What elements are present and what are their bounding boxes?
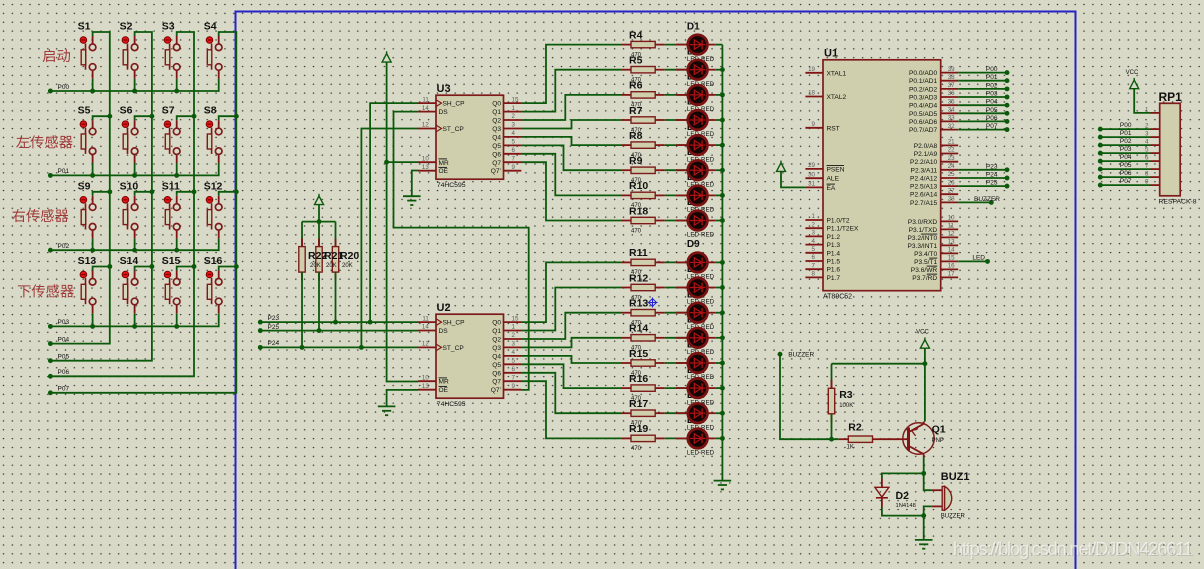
pin 39 P0.0/AD0 bbox=[909, 66, 958, 77]
LED D5 LED-RED bbox=[665, 135, 716, 163]
ground U3 OE bbox=[403, 195, 421, 197]
svg-text:LED: LED bbox=[972, 255, 985, 262]
svg-text:S3: S3 bbox=[162, 21, 175, 33]
svg-text:VCC: VCC bbox=[1126, 70, 1139, 76]
svg-text:BUZZER: BUZZER bbox=[941, 513, 966, 519]
pin 28 P2.7/A15 bbox=[910, 196, 958, 207]
wire VCC branch to R3 bbox=[832, 363, 925, 365]
wire cascade U2 Q7' to U3 DS bbox=[394, 112, 529, 390]
wire R5 net bbox=[521, 70, 621, 112]
svg-text:S10: S10 bbox=[120, 180, 139, 192]
pin 15 P3.5/T1 bbox=[914, 255, 958, 266]
resistor R9 470 bbox=[622, 155, 665, 184]
svg-text:5: 5 bbox=[1145, 147, 1149, 154]
svg-text:P04: P04 bbox=[986, 99, 998, 106]
svg-text:12: 12 bbox=[422, 341, 429, 348]
svg-text:Q7: Q7 bbox=[492, 160, 501, 167]
switch S5 bbox=[78, 105, 110, 176]
svg-text:20K: 20K bbox=[326, 263, 337, 269]
switch S2 bbox=[120, 21, 138, 92]
svg-text:P0.0/AD0: P0.0/AD0 bbox=[909, 70, 938, 77]
wire R18 net bbox=[521, 162, 621, 220]
svg-text:P1.0/T2: P1.0/T2 bbox=[827, 218, 850, 225]
svg-text:28: 28 bbox=[948, 196, 955, 203]
wire LED cathode to bus bbox=[715, 362, 722, 364]
svg-text:16: 16 bbox=[948, 263, 955, 270]
svg-text:P0.2/AD2: P0.2/AD2 bbox=[909, 86, 938, 93]
LED D16 LED-RED bbox=[665, 429, 716, 457]
node R21 bottom junction bbox=[317, 328, 322, 333]
LED D12 LED-RED bbox=[665, 328, 716, 356]
svg-text:RP1: RP1 bbox=[1159, 90, 1183, 104]
resistor R18 470 bbox=[622, 205, 665, 234]
pin 38 P0.1/AD1 bbox=[909, 74, 958, 85]
node junction row bus bbox=[132, 173, 137, 178]
wire net P07 (U1) bbox=[958, 129, 1007, 131]
svg-text:1: 1 bbox=[512, 105, 516, 112]
svg-text:6: 6 bbox=[1145, 155, 1149, 162]
switch S6 bbox=[120, 105, 152, 176]
svg-text:32: 32 bbox=[948, 123, 955, 130]
node LED terminal bbox=[985, 259, 990, 264]
svg-text:100K: 100K bbox=[839, 403, 853, 409]
svg-text:R14: R14 bbox=[629, 323, 648, 335]
svg-text:P23: P23 bbox=[268, 315, 280, 322]
node P04 terminal bbox=[1005, 103, 1010, 108]
svg-text:36: 36 bbox=[948, 90, 955, 97]
resistor pack RP1 RESPACK-8 bbox=[1159, 90, 1197, 206]
power VCC rail (MR pullup) bbox=[382, 54, 391, 63]
node cathode bus junction bbox=[720, 310, 725, 315]
wire pullup tops to VCC bbox=[302, 221, 336, 223]
resistor R14 470 bbox=[622, 323, 665, 352]
svg-text:P1.1/T2EX: P1.1/T2EX bbox=[827, 226, 859, 233]
pin 17 P3.7/RD bbox=[912, 271, 958, 282]
diode D2 1N4148 bbox=[875, 479, 916, 510]
svg-text:P24: P24 bbox=[986, 172, 998, 179]
svg-text:P01: P01 bbox=[1120, 130, 1132, 137]
svg-text:MR: MR bbox=[439, 379, 449, 386]
svg-text:7: 7 bbox=[812, 262, 816, 269]
svg-text:P2.2/A10: P2.2/A10 bbox=[910, 159, 937, 166]
switch S7 bbox=[162, 105, 194, 176]
svg-text:11: 11 bbox=[422, 96, 429, 103]
node P05 terminal bbox=[1005, 111, 1010, 116]
svg-text:AT89C52: AT89C52 bbox=[823, 294, 852, 301]
svg-text:OE: OE bbox=[439, 168, 449, 175]
switch S13 bbox=[78, 255, 110, 326]
svg-text:2: 2 bbox=[512, 332, 516, 339]
svg-text:RESPACK-8: RESPACK-8 bbox=[1159, 199, 1197, 206]
svg-text:XTAL2: XTAL2 bbox=[827, 94, 847, 101]
svg-text:Q1: Q1 bbox=[492, 328, 501, 335]
svg-text:P2.6/A14: P2.6/A14 bbox=[910, 192, 937, 199]
svg-text:20K: 20K bbox=[342, 263, 353, 269]
svg-text:U1: U1 bbox=[824, 47, 838, 59]
ground U2 OE bbox=[378, 405, 396, 407]
pin 22 P2.1/A9 bbox=[914, 147, 958, 158]
pin 7 P1.6 bbox=[805, 262, 840, 273]
svg-text:P1.7: P1.7 bbox=[827, 275, 841, 282]
svg-text:7: 7 bbox=[1145, 163, 1149, 170]
svg-text:P23: P23 bbox=[986, 163, 998, 170]
node P01 terminal (RP1) bbox=[1098, 135, 1103, 140]
wire LED cathode to bus bbox=[715, 287, 722, 289]
node P23 terminal bbox=[1005, 167, 1010, 172]
svg-text:7: 7 bbox=[512, 374, 516, 381]
svg-text:P0.1/AD1: P0.1/AD1 bbox=[909, 78, 938, 85]
svg-text:S2: S2 bbox=[120, 21, 133, 33]
label 左传感器 (left sensor) bbox=[16, 135, 72, 148]
wire R10 net bbox=[521, 154, 621, 196]
svg-text:Q2: Q2 bbox=[492, 337, 501, 344]
svg-text:P05: P05 bbox=[1120, 162, 1132, 169]
LED D2 LED-RED bbox=[665, 60, 716, 88]
node junction column bbox=[149, 189, 154, 194]
LED D1 LED-RED bbox=[665, 35, 716, 63]
svg-text:S15: S15 bbox=[162, 255, 181, 267]
node cathode bus junction bbox=[720, 436, 725, 441]
svg-text:P25: P25 bbox=[268, 324, 280, 331]
LED D7 LED-RED bbox=[665, 186, 716, 214]
node cathode bus junction bbox=[720, 168, 725, 173]
wire net P24 (to U2 ST_CP) bbox=[260, 346, 418, 348]
svg-text:R3: R3 bbox=[839, 389, 853, 401]
svg-text:P02: P02 bbox=[58, 243, 70, 250]
node junction row bus bbox=[90, 89, 95, 94]
node P06 terminal bbox=[1005, 119, 1010, 124]
node junction column bbox=[107, 264, 112, 269]
svg-text:26: 26 bbox=[948, 179, 955, 186]
switch S15 bbox=[162, 255, 194, 326]
wire collector to D2 anode bbox=[882, 473, 924, 478]
node P00 terminal bbox=[48, 89, 53, 94]
svg-text:P07: P07 bbox=[986, 123, 998, 130]
svg-text:XTAL1: XTAL1 bbox=[827, 70, 847, 77]
svg-text:14: 14 bbox=[422, 105, 429, 112]
pin 35 P0.4/AD4 bbox=[909, 98, 958, 109]
switch S4 bbox=[204, 21, 222, 79]
node VCC pullup junction bbox=[317, 219, 322, 224]
node VCC junction bbox=[922, 361, 927, 366]
svg-text:P1.2: P1.2 bbox=[827, 234, 841, 241]
ground LED bus bbox=[714, 480, 732, 482]
resistor R19 470 bbox=[622, 423, 665, 452]
node P03 terminal bbox=[1005, 95, 1010, 100]
wire row bus net P02 bbox=[50, 239, 218, 251]
switch S16 bbox=[204, 255, 237, 313]
svg-text:ST_CP: ST_CP bbox=[443, 345, 465, 352]
node collector junction bbox=[921, 471, 926, 476]
node R3/R2 junction bbox=[829, 437, 834, 442]
node junction row bus bbox=[132, 324, 137, 329]
wire N2 to BUZ1 bottom bbox=[924, 506, 932, 515]
node P03 terminal bbox=[48, 324, 53, 329]
svg-text:SH_CP: SH_CP bbox=[443, 320, 466, 327]
svg-text:LED-RED: LED-RED bbox=[687, 232, 715, 239]
wire D2 cathode to node N2 bbox=[882, 507, 924, 516]
svg-text:Q4: Q4 bbox=[492, 134, 501, 141]
svg-text:Q1: Q1 bbox=[492, 109, 501, 116]
node cathode bus junction bbox=[720, 143, 725, 148]
svg-text:7: 7 bbox=[512, 155, 516, 162]
svg-text:34: 34 bbox=[948, 107, 955, 114]
svg-text:10: 10 bbox=[422, 374, 429, 381]
wire R8 net bbox=[521, 137, 621, 145]
resistor R12 470 bbox=[622, 272, 665, 301]
wire U3 ST_CP branch to P24 bbox=[361, 129, 418, 348]
switch S10 bbox=[120, 180, 152, 250]
node junction column bbox=[149, 264, 154, 269]
svg-text:31: 31 bbox=[808, 181, 815, 188]
svg-text:PSEN: PSEN bbox=[827, 166, 845, 173]
svg-text:P3.7/RD: P3.7/RD bbox=[912, 275, 937, 282]
svg-text:P07: P07 bbox=[1120, 178, 1132, 185]
node junction row bus bbox=[90, 248, 95, 253]
LED D10 LED-RED bbox=[665, 278, 716, 306]
svg-text:39: 39 bbox=[948, 66, 955, 73]
wire net P25 (U1) bbox=[958, 185, 1007, 187]
wire net P02 (U1) bbox=[958, 88, 1007, 90]
switch S8 bbox=[204, 105, 237, 163]
svg-text:R20: R20 bbox=[340, 250, 359, 262]
svg-text:S4: S4 bbox=[204, 21, 217, 33]
svg-text:VCC: VCC bbox=[916, 330, 929, 336]
pin 3 RP1 / net P01 bbox=[1100, 130, 1159, 138]
svg-text:Q3: Q3 bbox=[492, 126, 501, 133]
svg-text:P07: P07 bbox=[58, 386, 70, 393]
wire net P24 (U1) bbox=[958, 177, 1007, 179]
pin 8 P1.7 bbox=[805, 271, 840, 282]
pin 6 RP1 / net P04 bbox=[1100, 154, 1159, 162]
pin 34 P0.5/AD5 bbox=[909, 107, 958, 118]
svg-text:https://blog.csdn.net/DJDN4266: https://blog.csdn.net/DJDN426611 bbox=[953, 538, 1193, 559]
wire R2 to Q1 base bbox=[882, 438, 899, 440]
pin 27 P2.6/A14 bbox=[910, 187, 958, 198]
svg-text:4: 4 bbox=[512, 349, 516, 356]
svg-text:Q6: Q6 bbox=[492, 151, 501, 158]
svg-text:1: 1 bbox=[512, 324, 516, 331]
pin 7 RP1 / net P05 bbox=[1100, 162, 1159, 170]
wire R13 net bbox=[521, 313, 621, 339]
svg-text:14: 14 bbox=[422, 324, 429, 331]
svg-text:LED-RED: LED-RED bbox=[687, 450, 715, 457]
node P04 terminal (RP1) bbox=[1098, 159, 1103, 164]
node junction row bus bbox=[174, 173, 179, 178]
svg-text:P3.4/T0: P3.4/T0 bbox=[914, 251, 937, 258]
switch S1 bbox=[78, 21, 96, 92]
node P02 terminal bbox=[48, 248, 53, 253]
svg-text:4: 4 bbox=[1145, 139, 1149, 146]
node junction row bus bbox=[174, 89, 179, 94]
svg-text:25: 25 bbox=[948, 171, 955, 178]
svg-text:1N4148: 1N4148 bbox=[896, 503, 916, 509]
svg-text:Q7’: Q7’ bbox=[491, 387, 502, 394]
svg-text:RST: RST bbox=[827, 125, 840, 132]
wire U2 OE to ground bbox=[387, 390, 419, 407]
LED D11 LED-RED bbox=[665, 303, 716, 331]
pin 32 P0.7/AD7 bbox=[909, 123, 958, 134]
pin 16 P3.6/WR bbox=[911, 263, 958, 274]
pin 24 P2.3/A11 bbox=[911, 163, 959, 174]
node junction column bbox=[107, 189, 112, 194]
wire R16 net bbox=[521, 364, 621, 388]
wire net P05 (U1) bbox=[958, 112, 1007, 114]
pin 36 P0.3/AD3 bbox=[909, 90, 958, 101]
wire R7 net bbox=[521, 120, 621, 129]
node P04 terminal bbox=[48, 341, 53, 346]
node P23 terminal bbox=[258, 320, 263, 325]
svg-text:S8: S8 bbox=[204, 105, 217, 117]
svg-text:R7: R7 bbox=[629, 105, 643, 117]
resistor R4 470 bbox=[622, 29, 665, 58]
switch S9 bbox=[78, 180, 110, 250]
node cathode bus junction bbox=[720, 67, 725, 72]
LED D6 LED-RED bbox=[665, 160, 716, 188]
svg-text:9: 9 bbox=[1145, 179, 1149, 186]
wire LED cathode to bus bbox=[715, 169, 722, 171]
svg-text:S7: S7 bbox=[162, 105, 175, 117]
svg-text:R6: R6 bbox=[629, 80, 643, 92]
pin 31 EA bbox=[805, 181, 835, 192]
svg-text:D1: D1 bbox=[687, 21, 700, 32]
pin 9 RST bbox=[805, 121, 839, 132]
wire net P04 (U1) bbox=[958, 104, 1007, 106]
svg-text:19: 19 bbox=[808, 66, 815, 73]
pin 4 RP1 / net P02 bbox=[1100, 138, 1159, 146]
pin 10 P3.0/RXD bbox=[908, 215, 958, 226]
wire keypad column 1 / net P04 bbox=[50, 32, 109, 344]
svg-text:2: 2 bbox=[512, 113, 516, 120]
wire net P01 (U1) bbox=[958, 80, 1007, 82]
svg-text:3: 3 bbox=[512, 122, 516, 129]
svg-text:P2.4/A12: P2.4/A12 bbox=[910, 176, 937, 183]
node P25 terminal bbox=[1005, 184, 1010, 189]
wire LED cathode to bus bbox=[715, 44, 722, 46]
wire R9 net bbox=[521, 145, 621, 170]
wire RP1 pin1 to VCC bbox=[1134, 89, 1150, 113]
wire LED cathode to bus bbox=[715, 337, 722, 339]
svg-text:P3.2/INT0: P3.2/INT0 bbox=[908, 235, 938, 242]
svg-text:37: 37 bbox=[948, 82, 955, 89]
svg-text:20K: 20K bbox=[310, 263, 321, 269]
wire net P23 (to U2 SH_CP) bbox=[260, 321, 418, 323]
svg-text:R18: R18 bbox=[629, 205, 648, 217]
node junction row bus bbox=[90, 173, 95, 178]
pin 2 RP1 / net P00 bbox=[1100, 122, 1159, 130]
wire LED cathode to bus bbox=[715, 119, 722, 121]
node cathode bus junction bbox=[720, 386, 725, 391]
resistor R8 470 bbox=[622, 130, 665, 159]
wire LED cathode to bus bbox=[715, 437, 722, 439]
svg-text:R13: R13 bbox=[629, 298, 648, 310]
node cathode bus junction bbox=[720, 92, 725, 97]
power VCC arrow (EA) bbox=[777, 163, 786, 172]
wire keypad column 3 / net P06 bbox=[50, 32, 194, 376]
wire U3 MR to VCC rail bbox=[387, 161, 419, 163]
pin 9 RP1 / net P07 bbox=[1100, 178, 1159, 186]
svg-text:21: 21 bbox=[948, 139, 955, 146]
svg-text:Q7: Q7 bbox=[492, 379, 501, 386]
LED D15 LED-RED bbox=[665, 403, 716, 431]
node cathode bus junction bbox=[720, 118, 725, 123]
pin 11 P3.1/TXD bbox=[909, 223, 959, 234]
svg-text:11: 11 bbox=[948, 223, 955, 230]
node cathode bus junction bbox=[720, 335, 725, 340]
svg-text:DS: DS bbox=[439, 109, 449, 116]
svg-text:9: 9 bbox=[512, 383, 516, 390]
node P02 terminal bbox=[1005, 86, 1010, 91]
sheet border bbox=[236, 12, 1076, 569]
resistor R2 1K bbox=[839, 422, 882, 451]
svg-text:74HC595: 74HC595 bbox=[437, 401, 466, 408]
svg-text:35: 35 bbox=[948, 98, 955, 105]
pin 19 XTAL1 bbox=[805, 66, 846, 77]
svg-text:Q0: Q0 bbox=[492, 101, 501, 108]
node P00 terminal bbox=[1005, 70, 1010, 75]
svg-text:Q5: Q5 bbox=[492, 143, 501, 150]
svg-text:8: 8 bbox=[1145, 171, 1149, 178]
node P01 terminal bbox=[1005, 78, 1010, 83]
svg-text:15: 15 bbox=[512, 315, 519, 322]
svg-text:470: 470 bbox=[631, 228, 642, 234]
node cathode bus junction bbox=[720, 193, 725, 198]
node junction row bus bbox=[90, 324, 95, 329]
pin 30 ALE bbox=[805, 171, 839, 182]
node cathode bus junction bbox=[720, 260, 725, 265]
resistor R10 470 bbox=[622, 180, 665, 209]
wire U3 SH_CP branch to P23 bbox=[370, 103, 418, 322]
svg-text:S1: S1 bbox=[78, 21, 91, 33]
label 右传感器 (right sensor) bbox=[12, 209, 68, 222]
node cathode bus junction bbox=[720, 218, 725, 223]
wire keypad column 4 / net P07 bbox=[50, 32, 236, 393]
svg-text:P2.0/A8: P2.0/A8 bbox=[914, 143, 938, 150]
node cathode bus junction bbox=[720, 411, 725, 416]
svg-text:R11: R11 bbox=[629, 247, 648, 259]
resistor R11 470 bbox=[622, 247, 665, 276]
resistor R7 470 bbox=[622, 105, 665, 134]
svg-text:P3.1/TXD: P3.1/TXD bbox=[909, 227, 938, 234]
svg-text:P24: P24 bbox=[268, 340, 280, 347]
switch S11 bbox=[162, 180, 194, 250]
pin 12 P3.2/INT0 bbox=[908, 231, 959, 242]
switch S3 bbox=[162, 21, 180, 92]
svg-text:R8: R8 bbox=[629, 130, 643, 142]
pin 2 P1.1/T2EX bbox=[805, 221, 859, 232]
svg-text:P02: P02 bbox=[986, 82, 998, 89]
resistor R20 20K bbox=[332, 222, 338, 323]
svg-text:P02: P02 bbox=[1120, 138, 1132, 145]
svg-text:P2.3/A11: P2.3/A11 bbox=[911, 167, 938, 174]
svg-text:18: 18 bbox=[808, 90, 815, 97]
svg-text:SH_CP: SH_CP bbox=[443, 101, 466, 108]
node P25 terminal bbox=[258, 328, 263, 333]
node P05 terminal bbox=[48, 358, 53, 363]
svg-text:S14: S14 bbox=[120, 255, 139, 267]
svg-text:P00: P00 bbox=[986, 66, 998, 73]
wire collector to BUZ1 top bbox=[924, 473, 932, 490]
svg-text:P3.0/RXD: P3.0/RXD bbox=[908, 219, 938, 226]
wire LED cathode to bus bbox=[715, 69, 722, 71]
node junction column bbox=[234, 114, 239, 119]
wire VCC to emitter/R3 bbox=[924, 348, 926, 421]
svg-text:29: 29 bbox=[808, 162, 815, 169]
svg-text:33: 33 bbox=[948, 115, 955, 122]
transistor Q1 PNP bbox=[899, 422, 946, 458]
svg-text:Q7’: Q7’ bbox=[491, 168, 502, 175]
svg-text:3: 3 bbox=[812, 230, 816, 237]
